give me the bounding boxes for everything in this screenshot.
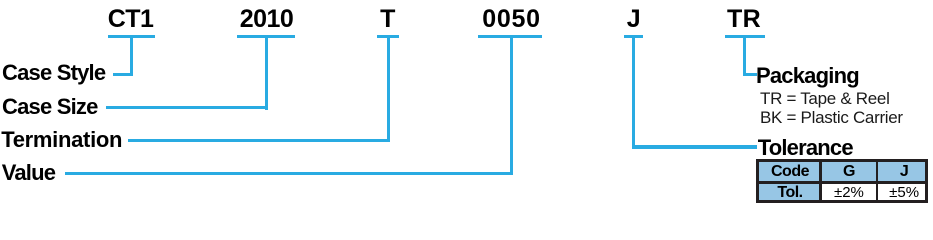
wire vertical from TR [743,35,746,77]
label Case Style [2,62,105,84]
wire vertical from CT1 [130,35,133,76]
table cell G [822,162,875,181]
wire horizontal Packaging [743,73,758,76]
underline T [377,35,400,38]
label Case Size [2,96,98,118]
label Packaging [756,65,859,87]
sub TR = Tape & Reel [760,90,890,108]
table cell Tol. [759,184,820,200]
wire vertical from T [387,35,390,143]
label Termination [1,129,122,151]
code T [380,7,395,32]
code 2010 [240,7,294,32]
underline 0050 [478,35,542,38]
table cell ±5% [878,184,924,200]
code CT1 [108,7,154,32]
table cell ±2% [822,184,875,200]
table cell J [878,162,924,181]
sub BK = Plastic Carrier [760,109,903,127]
code 0050 [482,7,540,32]
label Tolerance [758,137,853,159]
underline J [624,35,643,38]
wire horizontal Case Style [113,73,133,76]
wire horizontal Tolerance [632,145,757,148]
wire vertical from J [632,35,635,149]
table cell Code [759,162,820,181]
wire horizontal Value [65,172,513,175]
underline 2010 [237,35,295,38]
code J [627,7,640,32]
tolerance table frame [756,159,928,203]
code TR [727,7,761,32]
wire horizontal Termination [128,139,390,142]
wire vertical from 0050 [510,35,513,176]
wire vertical from 2010 [265,35,268,110]
underline CT1 [108,35,156,38]
underline TR [725,35,765,38]
wire horizontal Case Size [106,106,268,109]
label Value [2,162,55,184]
